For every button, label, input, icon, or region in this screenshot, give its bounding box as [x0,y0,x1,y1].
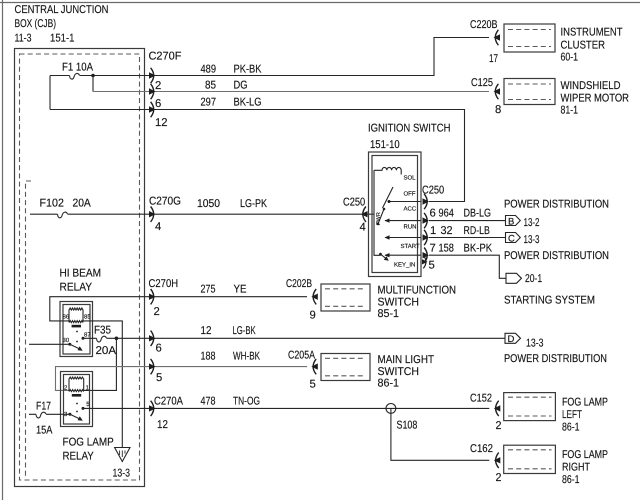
ignition contact RUN line [385,237,421,239]
svg-text:KEY_IN: KEY_IN [394,262,415,269]
svg-text:IGNITION SWITCH: IGNITION SWITCH [368,123,451,135]
wire 297 BK-LG to ignition switch C250 [50,110,465,202]
svg-text:D: D [508,334,515,345]
svg-text:275: 275 [201,284,216,296]
wire 85 DG branch down [92,76,94,92]
connector C270H pin 2 [149,289,156,304]
fog lamp relay coil [69,377,84,392]
svg-text:RD-LB: RD-LB [464,225,490,237]
ignition contact START line [385,254,421,256]
connector C250 pin 6 [423,213,430,228]
svg-text:SOL: SOL [404,175,417,182]
svg-text:DG: DG [234,80,248,92]
svg-text:2: 2 [496,472,502,484]
svg-text:BK-PK: BK-PK [464,243,493,255]
svg-text:STARTING SYSTEM: STARTING SYSTEM [504,295,595,307]
fog lamp relay inner box [64,375,90,425]
svg-text:1050: 1050 [197,198,220,210]
wire 85 DG to C125 [93,91,489,93]
svg-text:158: 158 [439,243,454,255]
svg-text:ACC: ACC [404,206,417,213]
pentagon 20-1 starting system [506,273,522,283]
svg-text:2: 2 [155,80,161,92]
svg-text:FOG LAMP: FOG LAMP [562,397,608,409]
ignition contact OFF line [389,201,421,203]
fuse F102 symbol [58,212,68,218]
wire 489 PK-BK from F1 to C220B [50,38,489,76]
svg-text:86-1: 86-1 [562,474,580,486]
wire S108 down to C162 [391,408,489,460]
svg-text:C270A: C270A [154,395,183,407]
svg-text:489: 489 [201,64,217,76]
fuse F1 symbol [70,73,80,79]
junction at F35 output [115,337,119,341]
ignition KEY_IN switch [379,253,382,256]
svg-text:13-3: 13-3 [524,234,540,246]
fog relay contact arm [70,414,80,419]
hi beam relay core bar [72,325,81,328]
connector C220B arrow pin 17 [494,30,501,45]
ignition contact ACC line [385,220,421,222]
svg-text:13-2: 13-2 [524,217,540,229]
svg-text:FOG LAMP: FOG LAMP [562,449,608,461]
svg-text:12: 12 [201,325,212,337]
svg-text:DB-LG: DB-LG [464,208,492,220]
svg-text:B: B [508,216,514,227]
wire 964 DB-LG to power distribution B [429,220,506,222]
ignition switch outer box [369,152,422,277]
svg-text:5: 5 [156,372,162,384]
connector C270A pin 12 [149,401,156,416]
wire 297 BK-LG branch down from fuse input [49,76,51,110]
wire 32 RD-LB to power distribution C [429,237,506,239]
svg-text:F17: F17 [36,401,51,413]
svg-text:7: 7 [430,243,436,255]
wire 158 BK-PK to starting system [429,255,506,278]
fog relay core bar [72,394,81,397]
svg-text:F1 10A: F1 10A [62,62,93,74]
svg-text:C202B: C202B [286,278,312,290]
svg-text:BOX (CJB): BOX (CJB) [15,18,57,30]
svg-text:17: 17 [489,53,498,65]
connector pin 5 on 188 WH-BK wire [149,359,156,374]
FOG LAMP RELAY outer box [61,372,93,427]
svg-text:C220B: C220B [470,19,498,31]
svg-text:MULTIFUNCTION: MULTIFUNCTION [378,285,457,297]
ignition rotor arm lower [378,209,384,224]
hi beam relay inner box [63,305,90,355]
connector C250 pin 5 unused [422,255,428,268]
svg-text:1: 1 [430,225,436,237]
svg-text:13-3: 13-3 [113,468,131,480]
svg-text:SWITCH: SWITCH [378,366,420,378]
connector C162 arrow pin 2 [494,453,501,468]
wire 1050 LG-PK from F102 to ignition switch [30,213,374,215]
svg-text:12: 12 [157,419,168,431]
svg-text:F35: F35 [94,325,111,337]
splice S108 [386,404,396,414]
svg-text:RIGHT: RIGHT [562,462,590,474]
svg-text:30: 30 [63,337,70,344]
fuse F35 symbol [97,336,107,342]
connector C202B arrow pin 9 [311,289,318,304]
svg-text:85-1: 85-1 [378,308,400,320]
svg-text:4: 4 [360,222,366,234]
multifunction switch box [321,284,370,311]
svg-text:RELAY: RELAY [63,451,95,463]
connector C250 top arrow [423,194,430,209]
ignition rotor pivot dot [383,208,386,211]
svg-text:964: 964 [439,208,454,220]
svg-text:C152: C152 [470,393,492,405]
wire 188 WH-BK from fog relay coil 2 loop [56,367,308,391]
svg-text:32: 32 [441,225,453,237]
svg-text:WH-BK: WH-BK [233,351,260,363]
page frame left border [2,0,4,500]
hi beam relay coil [69,308,83,323]
svg-text:C: C [508,233,515,244]
wire 12 LG-BK from relay 87 through F35 to D [83,337,505,339]
svg-text:188: 188 [201,351,216,363]
fog lamp left box [504,393,556,421]
svg-text:297: 297 [201,97,217,109]
svg-text:C270F: C270F [149,51,182,63]
connector C270G pin 4 [149,207,156,222]
svg-text:13-3: 13-3 [526,338,544,350]
wire hi beam coil 86 loop to 275 YE [50,297,307,321]
svg-text:HI BEAM: HI BEAM [60,268,102,280]
svg-text:85: 85 [84,314,91,321]
svg-text:85: 85 [205,80,216,92]
svg-text:86-1: 86-1 [378,378,400,390]
svg-text:PK-BK: PK-BK [234,64,262,76]
svg-text:87: 87 [84,332,91,339]
ignition switch feed line [374,170,380,255]
connector C270F pin 12 [149,102,156,117]
svg-text:C250: C250 [343,197,365,209]
connector C270F pin 6 [149,84,156,99]
svg-text:LG-PK: LG-PK [240,198,267,210]
svg-text:FOG LAMP: FOG LAMP [63,437,114,449]
svg-text:INSTRUMENT: INSTRUMENT [561,27,623,39]
svg-text:CLUSTER: CLUSTER [561,40,606,52]
svg-text:2: 2 [496,420,502,432]
svg-text:60-1: 60-1 [561,52,579,64]
svg-text:LEFT: LEFT [562,409,582,421]
wire hi beam relay 30 input [29,343,70,345]
svg-text:151-1: 151-1 [50,33,75,45]
svg-text:4: 4 [155,221,161,233]
svg-text:TN-OG: TN-OG [233,395,260,407]
fuse F17 symbol [36,412,46,418]
wire hi beam coil 85 to ground [83,321,122,448]
connector C250 left arrow pin 4 [361,207,368,222]
svg-text:POWER DISTRIBUTION: POWER DISTRIBUTION [504,250,609,262]
svg-text:11-3: 11-3 [15,33,32,45]
svg-text:20-1: 20-1 [525,273,542,285]
CJB inner fuse-panel dashed partial box [26,181,32,478]
main light switch box [321,354,370,381]
svg-text:C205A: C205A [288,350,315,362]
connector pin 6 on 12 LG-BK wire [149,331,156,346]
ground symbol 13-3 [115,448,130,462]
wire F35 junction down to fog relay coil 1 [84,338,117,390]
svg-text:RUN: RUN [404,224,417,231]
svg-text:9: 9 [310,310,316,322]
svg-text:5: 5 [429,260,435,272]
svg-text:86: 86 [63,314,70,321]
svg-text:2: 2 [154,306,160,318]
instrument cluster box [504,24,555,52]
svg-text:86-1: 86-1 [562,422,580,434]
svg-text:C270H: C270H [149,278,179,290]
connector C250 pin 7 [423,248,430,263]
svg-text:15A: 15A [36,425,53,437]
pentagon B 13-2 [506,216,521,226]
svg-text:6: 6 [155,98,161,110]
connector C250 pin 1 [423,230,430,245]
svg-text:478: 478 [201,395,216,407]
svg-text:6: 6 [430,208,436,220]
wire 478 TN-OG from fog relay 5 to C152 [83,407,489,409]
ignition rotor arm upper [383,187,394,208]
svg-text:5: 5 [310,379,316,391]
connector C205A arrow pin 5 [311,359,318,374]
svg-text:MAIN LIGHT: MAIN LIGHT [378,354,435,366]
CJB outer solid box [15,49,145,487]
svg-text:POWER DISTRIBUTION: POWER DISTRIBUTION [504,199,609,211]
svg-text:OFF: OFF [404,191,416,198]
svg-text:81-1: 81-1 [561,105,579,117]
svg-text:C162: C162 [470,443,493,455]
svg-text:BK-LG: BK-LG [234,97,262,109]
connector C152 arrow pin 2 [494,401,501,416]
svg-text:151-10: 151-10 [370,139,400,151]
svg-text:PWR: PWR [376,212,382,225]
svg-text:8: 8 [495,104,501,116]
windshield wiper motor box [504,79,555,105]
svg-text:CENTRAL JUNCTION: CENTRAL JUNCTION [15,4,109,16]
svg-text:20A: 20A [73,198,92,210]
svg-text:12: 12 [155,117,168,129]
hi beam relay outer box [60,302,93,357]
CJB inner dashed box [20,54,140,480]
svg-text:F102: F102 [40,198,64,210]
svg-text:20A: 20A [96,345,117,357]
svg-text:LG-BK: LG-BK [233,325,257,337]
page frame top border [0,2,640,4]
svg-text:C270G: C270G [149,196,181,208]
svg-text:POWER DISTRIBUTION: POWER DISTRIBUTION [504,353,607,365]
svg-text:WIPER MOTOR: WIPER MOTOR [561,93,630,105]
connector C125 arrow pin 8 [494,84,501,99]
svg-text:START: START [401,243,420,250]
svg-text:YE: YE [234,284,247,296]
svg-text:SWITCH: SWITCH [378,297,420,309]
hi beam relay contact arm [70,344,80,349]
svg-text:RELAY: RELAY [60,282,93,294]
wire F17 to fog relay 3 [29,413,70,415]
fog lamp right box [504,445,556,473]
svg-text:S108: S108 [397,420,418,432]
connector C270F pin 2 [149,68,156,83]
ignition switch inner box [372,156,418,273]
svg-text:6: 6 [156,343,162,355]
ignition switch coil [374,167,401,174]
svg-text:WINDSHIELD: WINDSHIELD [561,80,621,92]
pentagon C 13-3 [506,233,521,243]
junction at F1 output branch [91,74,95,78]
pentagon D 13-3 power distribution [505,333,521,343]
svg-text:C125: C125 [471,77,493,89]
